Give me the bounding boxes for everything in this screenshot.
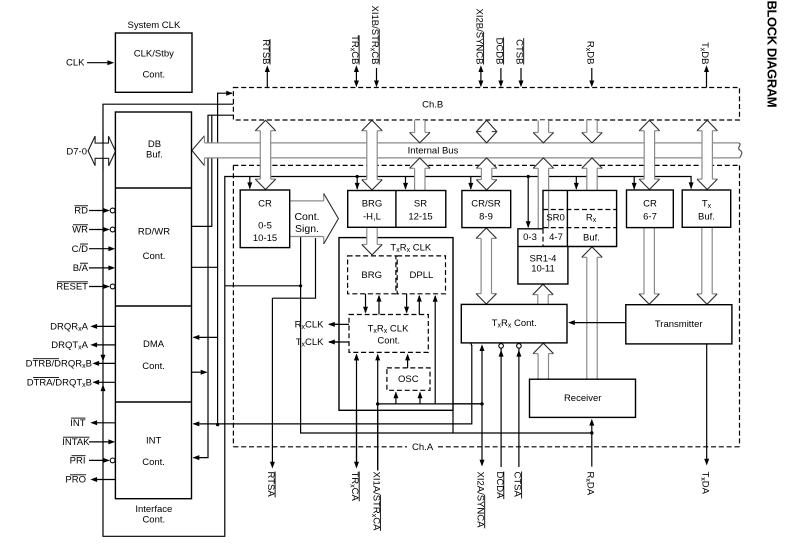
svg-text:Cont.: Cont. [142,515,165,526]
svg-text:RxCLK: RxCLK [295,320,325,332]
svg-text:DRQTxA: DRQTxA [51,340,88,352]
svg-text:RTSB: RTSB [260,39,271,64]
svg-text:Transmitter: Transmitter [655,319,703,330]
svg-text:CTSB: CTSB [514,39,525,64]
svg-text:Cont.: Cont. [142,457,165,468]
svg-text:4-7: 4-7 [549,232,563,243]
svg-text:Buf.: Buf. [698,212,715,223]
svg-text:DRQRxA: DRQRxA [50,322,88,334]
svg-text:Ch.B: Ch.B [422,100,443,111]
svg-text:Cont.: Cont. [294,211,319,223]
svg-text:INT: INT [70,418,86,429]
svg-text:CTSA: CTSA [512,472,523,498]
svg-text:0-3: 0-3 [523,232,537,243]
svg-text:RxDA: RxDA [584,472,596,496]
svg-text:PRO: PRO [65,475,86,486]
svg-text:INT: INT [146,436,162,447]
svg-text:Cont.: Cont. [142,70,165,81]
svg-text:DCDB: DCDB [494,38,505,65]
svg-text:DCDA: DCDA [494,472,505,500]
svg-text:C/D: C/D [72,244,89,255]
svg-text:6-7: 6-7 [643,212,657,223]
svg-text:BRG: BRG [362,199,383,210]
svg-text:-H,L: -H,L [363,212,381,223]
svg-text:TxCLK: TxCLK [296,337,324,349]
svg-text:XI1A/STRxCA: XI1A/STRxCA [370,472,382,532]
svg-text:DTRB/DRQRxB: DTRB/DRQRxB [26,359,92,371]
svg-text:D7-0: D7-0 [66,147,87,158]
svg-text:TxDB: TxDB [699,42,711,65]
svg-text:8-9: 8-9 [479,212,493,223]
svg-text:DMA: DMA [143,339,165,350]
svg-text:CLK/Stby: CLK/Stby [134,49,174,60]
svg-text:OSC: OSC [398,374,419,385]
svg-text:12-15: 12-15 [408,212,432,223]
svg-text:Sign.: Sign. [295,223,319,235]
svg-text:CR/SR: CR/SR [471,199,501,210]
svg-text:Cont.: Cont. [143,251,166,262]
svg-text:RTSA: RTSA [265,472,276,498]
svg-text:Buf.: Buf. [146,149,163,160]
svg-text:XI2A/SYNCA: XI2A/SYNCA [475,472,486,529]
svg-text:0-5: 0-5 [258,221,272,232]
svg-text:Internal Bus: Internal Bus [408,146,459,157]
svg-text:RxDB: RxDB [584,41,596,65]
svg-text:Buf.: Buf. [583,232,600,243]
svg-text:SR0: SR0 [546,212,564,223]
svg-text:XI2B/SYNCB: XI2B/SYNCB [474,9,485,65]
svg-text:TxDA: TxDA [699,472,711,495]
svg-text:Ch.A: Ch.A [412,442,434,453]
svg-text:Cont.: Cont. [142,361,165,372]
svg-text:CR: CR [258,199,272,210]
svg-text:10-15: 10-15 [253,233,277,244]
svg-text:B/A: B/A [73,263,89,274]
svg-text:BLOCK DIAGRAM: BLOCK DIAGRAM [764,1,779,108]
svg-text:System CLK: System CLK [128,20,181,31]
svg-text:RD/WR: RD/WR [138,227,170,238]
svg-text:WR: WR [72,225,88,236]
svg-text:Cont.: Cont. [377,335,400,346]
svg-text:INTAK: INTAK [62,437,90,448]
svg-text:SR: SR [414,199,427,210]
svg-text:XI1B/STRxCB: XI1B/STRxCB [369,6,381,65]
svg-text:PRI: PRI [70,456,86,467]
svg-text:DPLL: DPLL [410,270,434,281]
svg-text:RESET: RESET [56,282,88,293]
svg-text:BRG: BRG [361,270,382,281]
svg-text:CR: CR [643,199,657,210]
svg-text:10-11: 10-11 [531,264,555,275]
svg-text:CLK: CLK [66,58,85,69]
svg-text:RD: RD [74,206,88,217]
svg-text:Receiver: Receiver [564,393,602,404]
